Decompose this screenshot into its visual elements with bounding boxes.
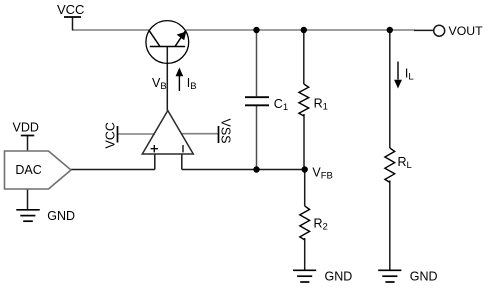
svg-text:VB: VB [152,76,167,92]
svg-text:VCC: VCC [104,122,118,148]
svg-text:GND: GND [325,270,353,284]
svg-text:VDD: VDD [13,121,39,135]
svg-text:GND: GND [410,270,438,284]
svg-text:IB: IB [187,76,197,92]
svg-text:IL: IL [405,67,414,83]
svg-text:VOUT: VOUT [449,24,484,38]
svg-text:DAC: DAC [15,163,41,177]
svg-text:C1: C1 [274,97,288,113]
svg-text:R1: R1 [314,97,328,113]
svg-text:RL: RL [398,155,412,171]
svg-text:VSS: VSS [218,119,232,144]
svg-text:VFB: VFB [312,166,332,182]
svg-text:VCC: VCC [57,2,84,17]
svg-text:R2: R2 [314,217,328,233]
svg-text:GND: GND [47,209,75,223]
